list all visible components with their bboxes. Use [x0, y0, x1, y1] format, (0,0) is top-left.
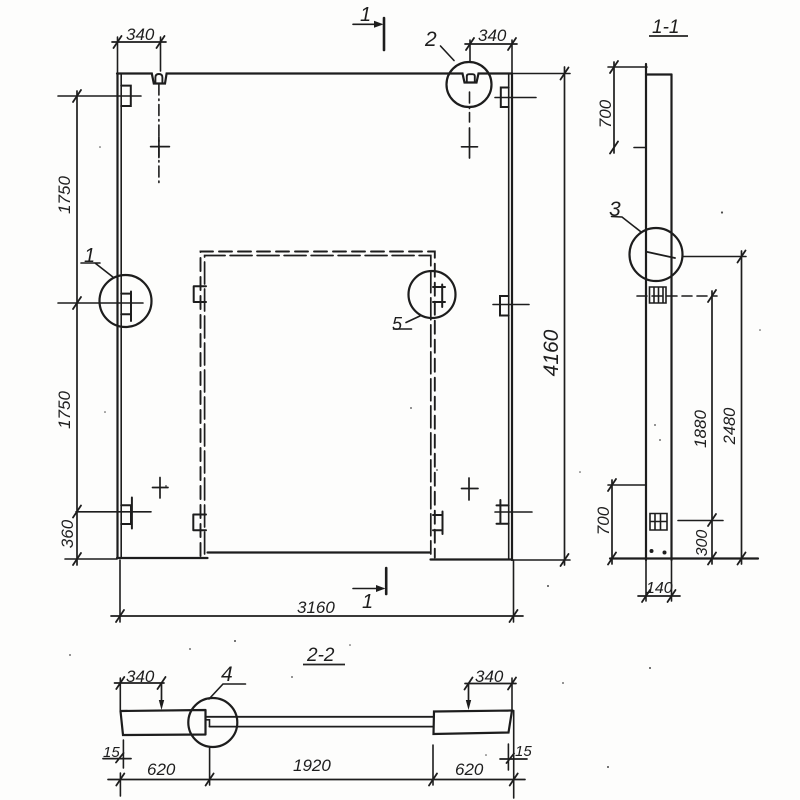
svg-text:2-2: 2-2 [306, 645, 335, 666]
svg-text:340: 340 [126, 25, 155, 44]
svg-text:140: 140 [646, 580, 673, 597]
svg-text:3160: 3160 [297, 598, 335, 617]
svg-text:1: 1 [360, 4, 371, 26]
svg-text:360: 360 [58, 519, 77, 548]
svg-text:4160: 4160 [540, 329, 563, 376]
svg-text:1920: 1920 [293, 756, 331, 775]
svg-text:1: 1 [84, 245, 95, 267]
svg-text:300: 300 [694, 530, 711, 557]
svg-text:700: 700 [596, 99, 615, 128]
svg-text:4: 4 [221, 663, 233, 686]
svg-text:1750: 1750 [55, 391, 74, 429]
svg-text:1880: 1880 [691, 410, 710, 448]
svg-text:1750: 1750 [55, 176, 74, 214]
svg-text:340: 340 [475, 667, 504, 686]
svg-text:2: 2 [424, 28, 437, 51]
svg-text:1: 1 [362, 591, 373, 613]
svg-text:700: 700 [594, 506, 613, 535]
svg-text:340: 340 [126, 667, 155, 686]
svg-text:620: 620 [455, 760, 484, 779]
svg-text:15: 15 [515, 743, 532, 760]
svg-text:340: 340 [478, 26, 507, 45]
svg-text:2480: 2480 [721, 407, 739, 446]
svg-text:15: 15 [103, 744, 120, 761]
svg-text:620: 620 [147, 760, 176, 779]
svg-text:3: 3 [609, 198, 621, 221]
svg-text:1-1: 1-1 [652, 17, 679, 38]
svg-text:5: 5 [392, 314, 403, 334]
